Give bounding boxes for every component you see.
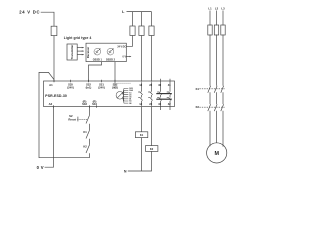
pin S35 xyxy=(70,80,72,82)
wire L3 drop xyxy=(222,11,224,26)
wire K1 to K2 contacts xyxy=(210,92,223,104)
svg-text:K2: K2 xyxy=(196,105,200,109)
svg-text:24 V DC: 24 V DC xyxy=(117,45,126,48)
svg-text:K1: K1 xyxy=(196,87,200,91)
OSSD1 output symbol xyxy=(94,48,101,55)
svg-text:Transmitter: Transmitter xyxy=(70,45,74,60)
contact K1 aux xyxy=(86,130,90,138)
fuse F6 xyxy=(214,25,218,35)
fuse F1 xyxy=(51,26,57,35)
svg-text:K2: K2 xyxy=(83,145,87,149)
wire 24VDC feed xyxy=(41,12,54,26)
svg-text:L2: L2 xyxy=(215,6,219,10)
svg-text:Receiver: Receiver xyxy=(86,47,90,58)
fuse F5 xyxy=(208,25,212,35)
transmitter box xyxy=(67,44,77,60)
wire branch to reset rail xyxy=(39,72,90,157)
mechanical link bar upper xyxy=(156,93,172,95)
wire K1 coil to N rail xyxy=(141,138,143,171)
svg-text:OSSD 1: OSSD 1 xyxy=(93,58,103,61)
svg-text:13: 13 xyxy=(139,83,142,87)
wire OSSD1 to S22 xyxy=(89,62,102,82)
wire K2 coil to N rail xyxy=(128,151,152,171)
logic pin tags xyxy=(129,88,133,105)
svg-text:24: 24 xyxy=(129,102,132,105)
wire beam arrow 2 xyxy=(77,50,84,52)
svg-text:(In1): (In1) xyxy=(86,85,92,89)
receiver box xyxy=(86,43,126,61)
switch S2 actuator xyxy=(77,117,79,122)
svg-text:33: 33 xyxy=(158,83,161,87)
fuse F2 xyxy=(130,26,135,36)
fuse F4 xyxy=(149,26,154,36)
svg-text:K1: K1 xyxy=(83,130,87,134)
coil K1 xyxy=(135,132,147,138)
pin A2 xyxy=(53,105,55,107)
pin S21 xyxy=(101,80,103,82)
fuse F7 xyxy=(221,25,225,35)
svg-text:L1: L1 xyxy=(208,6,212,10)
svg-text:A2: A2 xyxy=(49,102,53,106)
contact path 13-14 xyxy=(141,82,143,106)
fuse F3 xyxy=(139,26,144,36)
wire L drop 3 xyxy=(151,12,153,26)
wire L bus xyxy=(127,11,152,13)
wire light grid supply xyxy=(126,36,132,47)
svg-text:L: L xyxy=(122,10,125,14)
mechanical link bar lower xyxy=(156,98,172,100)
pin S33 xyxy=(89,105,91,107)
svg-text:S33: S33 xyxy=(82,102,87,106)
svg-text:OSSD 2: OSSD 2 xyxy=(106,58,116,61)
logic circuit symbol xyxy=(115,82,131,103)
svg-text:K2: K2 xyxy=(150,147,154,151)
contact path 41-42 xyxy=(169,79,171,110)
svg-text:23: 23 xyxy=(149,83,152,87)
safety relay U1 box xyxy=(44,81,175,107)
wire pin24 to K2 coil xyxy=(151,107,153,146)
svg-text:Reset: Reset xyxy=(68,117,76,121)
wire fuse3 to pin 13 xyxy=(141,36,143,82)
wire S33 to reset chain xyxy=(89,107,91,116)
pin S32 xyxy=(114,80,116,82)
wire L2 drop xyxy=(216,11,218,26)
OSSD2 output symbol xyxy=(107,48,114,55)
svg-text:24 V DC: 24 V DC xyxy=(19,10,40,15)
svg-text:(24V): (24V) xyxy=(98,85,105,89)
contactor K1 main contacts xyxy=(208,86,224,93)
svg-text:N: N xyxy=(124,169,127,173)
motor M1 xyxy=(207,143,227,163)
svg-text:34: 34 xyxy=(158,102,161,106)
svg-text:0 V: 0 V xyxy=(123,56,127,58)
svg-text:A1: A1 xyxy=(49,83,53,87)
contact path 23-24 xyxy=(151,82,153,106)
svg-text:M: M xyxy=(214,151,219,157)
wire K2 to motor xyxy=(210,111,223,147)
wire beam arrow 3 xyxy=(77,54,84,56)
svg-text:24: 24 xyxy=(149,102,152,106)
svg-text:42: 42 xyxy=(168,102,171,106)
coil K2 xyxy=(146,146,158,152)
svg-text:PSR-ESD-30: PSR-ESD-30 xyxy=(45,94,67,98)
switch S2 reset contact xyxy=(86,115,90,123)
wire L drop 1 xyxy=(132,12,134,26)
pin A1 xyxy=(53,80,55,82)
wire fuse4 to pin 23 xyxy=(151,36,153,82)
wire A2 to 0V xyxy=(45,107,54,168)
svg-text:S34: S34 xyxy=(92,102,97,106)
wire pin14 to K1 coil xyxy=(141,107,143,132)
wire OSSD2 to S32 xyxy=(114,62,116,82)
svg-text:L3: L3 xyxy=(221,6,225,10)
wire L1 drop xyxy=(209,11,211,26)
contact path 33-34 xyxy=(160,79,162,110)
pin S22 xyxy=(88,80,90,82)
pin S34 xyxy=(96,105,98,107)
svg-text:(24V): (24V) xyxy=(67,85,74,89)
svg-text:0 V: 0 V xyxy=(37,165,44,170)
svg-text:14: 14 xyxy=(139,102,142,106)
svg-text:41: 41 xyxy=(168,83,171,87)
wire beam arrow 1 xyxy=(77,47,84,49)
svg-text:K1: K1 xyxy=(140,133,144,137)
wire fuses to K1 contacts xyxy=(210,35,223,86)
wire L drop 2 xyxy=(141,12,143,26)
contact K2 aux xyxy=(86,145,90,153)
contactor K2 main contacts xyxy=(208,104,224,111)
svg-text:Light grid type 4: Light grid type 4 xyxy=(64,36,92,40)
wire fuse to A1 xyxy=(53,36,55,82)
wire 0V stub xyxy=(126,56,130,58)
